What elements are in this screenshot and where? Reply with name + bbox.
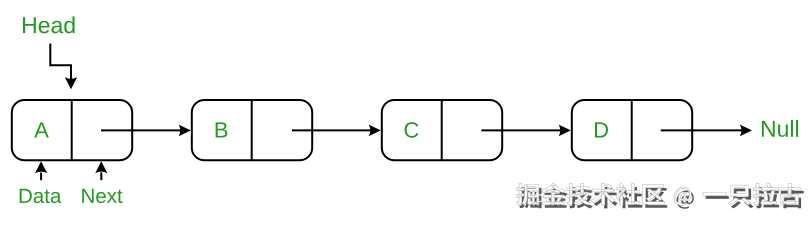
node B data value	[216, 122, 228, 137]
node A box	[12, 100, 132, 160]
data pointer arrow (up)	[40, 173, 42, 181]
label Next	[82, 189, 122, 203]
node C data value	[405, 122, 419, 138]
wire: next pointer arrow A to B	[101, 129, 180, 131]
watermark text	[516, 183, 801, 205]
node C divider	[441, 100, 443, 160]
node B divider	[251, 100, 253, 160]
node A divider	[71, 100, 73, 160]
head pointer arrowhead	[65, 77, 77, 89]
head pointer wire (elbow)	[50, 44, 71, 80]
node C box	[382, 100, 502, 160]
label Null	[762, 120, 798, 137]
wire: next pointer arrow B to C	[292, 129, 370, 131]
next pointer arrow (up)	[100, 173, 102, 181]
node D divider	[631, 100, 633, 160]
wire: next pointer arrow C to D	[481, 129, 560, 131]
node B box	[192, 100, 312, 160]
label Data	[20, 189, 62, 203]
node A data value	[34, 122, 49, 137]
watermark shadow	[519, 187, 804, 209]
wire: next pointer arrow D to Null	[661, 129, 742, 131]
node D box	[572, 100, 692, 160]
node D data value	[595, 122, 608, 137]
label Head	[23, 16, 75, 33]
